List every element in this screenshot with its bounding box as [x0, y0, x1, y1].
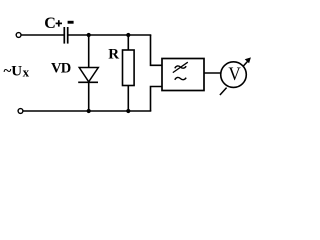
svg-text:C: C: [44, 15, 56, 32]
converter U1 box: [162, 59, 204, 91]
svg-text:V: V: [228, 64, 241, 85]
node diode top: [87, 33, 91, 37]
label -: [68, 21, 74, 24]
wire bottom rail: [23, 110, 151, 112]
voltmeter pointer tail: [220, 88, 227, 95]
svg-text:R: R: [108, 46, 119, 62]
converter lower tilde: [175, 77, 186, 79]
resistor R body: [123, 50, 135, 86]
capacitor C1 plates: [63, 27, 65, 44]
label +: [56, 22, 62, 24]
voltmeter pointer arrowhead: [245, 57, 251, 63]
input terminal bottom: [18, 109, 23, 114]
node diode bottom: [87, 109, 91, 113]
node resistor top: [126, 33, 130, 37]
wire step to converter bottom input: [151, 87, 163, 112]
svg-text:VD: VD: [51, 61, 71, 77]
diode VD cathode bar: [78, 81, 98, 83]
converter diagonal stroke: [173, 62, 188, 72]
voltmeter pointer arrow shaft: [243, 60, 248, 66]
resistor R bottom stub: [127, 86, 129, 112]
svg-text:x: x: [23, 64, 30, 79]
wire top rail right of capacitor: [68, 34, 151, 36]
wire step to converter top input: [151, 35, 163, 65]
converter upper tilde: [175, 66, 186, 68]
diode VD anode wire: [88, 35, 90, 68]
input terminal top: [16, 33, 21, 38]
diode VD triangle: [79, 68, 98, 82]
resistor R top stub: [127, 35, 129, 50]
svg-text:~U: ~U: [4, 64, 23, 80]
wire top rail left of capacitor: [21, 34, 63, 36]
node resistor bottom: [126, 109, 130, 113]
voltmeter P1 circle: [221, 62, 247, 88]
wire converter to voltmeter: [204, 72, 222, 74]
diode VD cathode wire: [88, 82, 90, 111]
